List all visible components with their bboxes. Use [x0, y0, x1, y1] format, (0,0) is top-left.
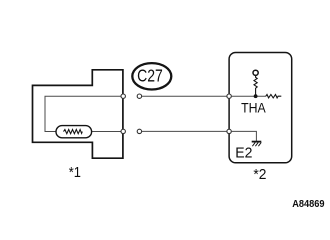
ECU terminal circle E2 (on box edge) — [227, 129, 231, 133]
wire THA inside ECU — [231, 95, 266, 97]
wire E2 (harness to ECU) — [142, 130, 227, 132]
svg-text:A84869: A84869 — [292, 199, 325, 210]
harness terminal circle (THA wire start) — [137, 94, 141, 98]
pin 2 terminal circle (sensor side, E2 line) — [121, 129, 125, 133]
wire (sensor loop top) — [45, 96, 121, 131]
thermistor zigzag element — [64, 130, 83, 134]
harness terminal circle (E2 wire start) — [137, 129, 141, 133]
svg-text:E2: E2 — [235, 145, 252, 161]
resistor (horizontal zigzag on THA line) — [266, 95, 282, 98]
power terminal circle (pull-up supply) — [253, 70, 258, 75]
svg-text:C27: C27 — [137, 67, 163, 86]
wire THA (harness to ECU) — [142, 95, 227, 97]
ECU terminal circle THA (on box edge) — [227, 94, 231, 98]
svg-text:THA: THA — [241, 100, 266, 116]
connector C27 oval — [132, 63, 171, 89]
svg-text:*1: *1 — [69, 163, 81, 180]
wire E2 inside ECU — [231, 131, 256, 141]
thermistor body — [56, 126, 92, 138]
svg-text:*2: *2 — [253, 167, 266, 184]
ground E2 (hatch ticks) — [252, 142, 261, 146]
wire (sensor loop right of thermistor) — [92, 131, 121, 133]
resistor (pull-up, vertical zigzag) — [254, 76, 257, 95]
junction node dot — [254, 94, 258, 98]
pin 1 terminal circle (sensor side, THA line) — [121, 94, 125, 98]
sensor connector outline *1 — [33, 70, 123, 158]
ECU box *2 — [229, 53, 292, 163]
ground E2 (bar) — [252, 141, 262, 143]
